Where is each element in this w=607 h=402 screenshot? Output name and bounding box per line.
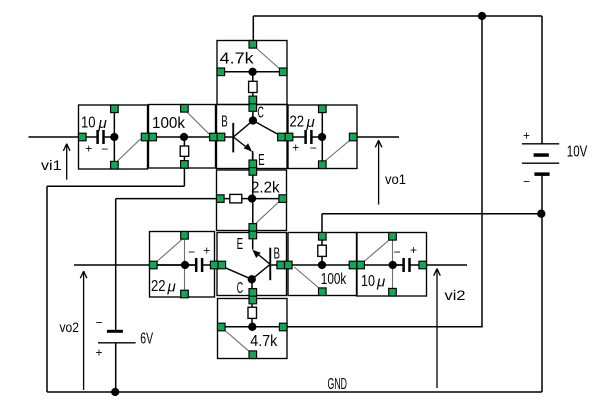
wire R2 bottom jog to left rail: [47, 164, 184, 392]
capacitor C4 plates and node: [389, 258, 411, 272]
arrow vi2: [434, 269, 441, 388]
handle C1 N: [111, 105, 119, 113]
wire GND rail: [47, 391, 542, 393]
svg-text:10: 10: [361, 273, 375, 290]
label C2 minus: [310, 141, 317, 155]
svg-text:+: +: [95, 345, 102, 359]
label Q1 E: [258, 152, 265, 169]
leader R2: [186, 111, 211, 136]
handle Q2 E: [277, 261, 285, 269]
battery BT2 6V: [98, 330, 136, 343]
node top rail junction: [478, 12, 486, 20]
leader R1: [255, 47, 282, 71]
svg-text:2.2k: 2.2k: [251, 179, 280, 196]
handle C2 S: [319, 161, 327, 169]
handle R6 W: [218, 323, 226, 331]
resistor R6 box (4.7k bottom): [218, 299, 288, 359]
svg-text:10: 10: [81, 115, 96, 132]
capacitor C2 plates and node: [288, 108, 326, 162]
svg-text:+: +: [203, 243, 210, 257]
label C2 plus: [292, 141, 299, 155]
capacitor C4 box (10u input bottom): [357, 233, 427, 297]
leader C3: [156, 239, 185, 290]
handle R6 S: [249, 351, 257, 359]
handle Q1 W: [217, 133, 225, 141]
handle C3 S: [181, 290, 189, 298]
wire top mid row R2-Q1: [148, 136, 234, 138]
svg-text:4.7k: 4.7k: [220, 51, 255, 68]
label R5 value: [321, 271, 347, 288]
label C1 minus: [101, 142, 108, 156]
svg-text:6V: 6V: [140, 331, 153, 348]
wire C3 stub to handle: [203, 264, 217, 266]
label BT2 plus: [95, 345, 102, 359]
svg-text:μ: μ: [98, 115, 107, 132]
node GND junction: [111, 388, 119, 396]
label C2 value: [290, 114, 315, 132]
resistor R1 box (4.7k top): [217, 41, 287, 105]
label C3 value: [151, 278, 176, 296]
wire E1-E2 vertical link: [252, 153, 254, 224]
label vi2: [445, 287, 466, 303]
label R2 value: [152, 115, 186, 132]
label C3 minus: [188, 245, 195, 259]
label BT2 minus: [95, 315, 102, 329]
svg-text:−: −: [188, 245, 195, 259]
svg-text:μ: μ: [167, 279, 176, 296]
svg-text:C: C: [237, 280, 244, 297]
capacitor C1 plates and node: [79, 108, 118, 162]
battery BT1 10V: [522, 144, 559, 176]
leader R3: [255, 201, 280, 225]
handle R6 E: [279, 323, 287, 331]
leader R5: [294, 267, 320, 289]
wire Q2 collector to R6: [251, 279, 253, 327]
svg-text:E: E: [237, 236, 244, 253]
svg-text:C: C: [257, 105, 264, 122]
svg-text:GND: GND: [328, 376, 348, 393]
resistor R3 body and node: [217, 194, 287, 203]
wire vo2 stub row: [74, 264, 195, 266]
handle C3 N: [181, 232, 189, 240]
wire R3 2.2k left run: [116, 199, 217, 330]
wire node vertical x482: [481, 16, 483, 327]
svg-text:vo1: vo1: [385, 171, 406, 187]
transistor Q1 symbol: [232, 108, 257, 165]
handle R5 W: [285, 261, 293, 269]
svg-text:+: +: [292, 141, 299, 155]
label Q1 B: [221, 113, 228, 130]
svg-text:B: B: [221, 113, 228, 130]
handle C2 N: [319, 105, 327, 113]
label BT1 minus: [523, 175, 530, 189]
handle R2 E: [210, 133, 218, 141]
svg-text:22: 22: [290, 114, 305, 131]
svg-text:−: −: [95, 315, 102, 329]
arrow vi1: [63, 144, 70, 180]
resistor R6 body and node: [218, 307, 288, 331]
arrow vo2: [80, 271, 87, 390]
wire 4.7k R1 top to rail: [252, 16, 254, 41]
handle R3 N: [249, 168, 257, 176]
handle Q1 S: [249, 160, 257, 168]
svg-text:vi2: vi2: [445, 287, 466, 303]
wire battery BT1 bottom: [541, 176, 543, 393]
resistor R1 body and node: [217, 68, 287, 105]
wire C4 row left: [357, 264, 403, 266]
capacitor C3 plates and node: [156, 258, 203, 272]
handle C4 W: [357, 261, 365, 269]
wire Q2 base row through R5: [270, 264, 357, 266]
label R3 value: [251, 179, 280, 196]
leader C2: [325, 140, 351, 162]
leader R6: [224, 330, 251, 353]
label Q1 C: [257, 105, 264, 122]
label C4 plus: [410, 243, 417, 257]
handle R3 S: [249, 224, 257, 232]
resistor R2 box (100k top): [149, 105, 216, 169]
arrow vo1: [375, 140, 382, 204]
handle R3 W: [217, 195, 225, 203]
handle R5 E: [349, 261, 357, 269]
label BT1 plus: [523, 128, 530, 142]
svg-text:+: +: [410, 243, 417, 257]
transistor Q2 box: [217, 233, 287, 296]
label Q2 C: [237, 280, 244, 297]
label R6 value: [250, 333, 278, 350]
svg-text:10V: 10V: [567, 143, 588, 160]
node battery mid junction: [537, 210, 545, 218]
handle Q2 W: [218, 261, 226, 269]
label R1 value: [220, 51, 255, 68]
leader C4: [363, 239, 393, 289]
transistor Q2 symbol: [248, 237, 272, 283]
handle C1 S: [111, 161, 119, 169]
handle R5 N: [319, 233, 327, 241]
svg-text:vo2: vo2: [60, 319, 80, 335]
svg-text:100k: 100k: [321, 271, 347, 288]
resistor R3 box (2.2k): [217, 170, 287, 231]
svg-text:22: 22: [151, 278, 166, 295]
handle C2 W: [285, 133, 293, 141]
transistor Q1 box: [217, 105, 288, 169]
handle C3 W: [150, 261, 158, 269]
wire top supply rail: [253, 15, 542, 17]
handle C4 N: [389, 233, 397, 241]
wire battery mid to R5 top: [322, 214, 542, 233]
handle R5 S: [319, 288, 327, 296]
handle Q2 S: [249, 289, 257, 297]
capacitor C1 box (10u input top): [79, 105, 148, 169]
handle C2 E: [349, 133, 357, 141]
capacitor C2 box (22u output top): [288, 105, 357, 169]
handle R1 S: [249, 96, 257, 104]
label BT1 value: [567, 143, 588, 160]
svg-text:B: B: [274, 245, 281, 262]
label vi1: [41, 157, 62, 173]
wire output vo1: [353, 136, 399, 138]
svg-text:+: +: [523, 128, 530, 142]
svg-text:+: +: [85, 141, 92, 155]
svg-text:100k: 100k: [152, 115, 186, 132]
label C4 minus: [393, 245, 400, 259]
wire output vi2 stub: [410, 264, 467, 266]
label vo1: [385, 171, 406, 187]
label C1 value: [81, 115, 107, 133]
wire R5 top vertical: [321, 233, 323, 265]
label C1 plus: [85, 141, 92, 155]
capacitor C3 box (22u output bottom): [150, 232, 215, 298]
svg-text:E: E: [258, 152, 265, 169]
wire R6 output to x482: [287, 326, 483, 328]
wire rail to battery BT1: [541, 16, 543, 144]
label GND: [328, 376, 348, 393]
label vo2: [60, 319, 80, 335]
handle C1 E: [141, 133, 149, 141]
wire Q1 collector diag to C2: [253, 121, 281, 137]
handle Q2 N: [249, 231, 257, 239]
handle R3 E: [279, 195, 287, 203]
handle R1 N: [249, 41, 257, 49]
svg-text:4.7k: 4.7k: [250, 333, 278, 350]
handle C4 S: [389, 288, 397, 296]
resistor R5 box (100k bottom): [288, 233, 357, 296]
wire input vi1 stub: [29, 136, 80, 138]
handle C1 W: [79, 133, 87, 141]
handle R1 E: [279, 68, 287, 76]
svg-text:−: −: [310, 141, 317, 155]
handle C3 E: [210, 261, 218, 269]
svg-text:−: −: [523, 175, 530, 189]
label C3 plus: [203, 243, 210, 257]
svg-text:μ: μ: [306, 114, 315, 131]
label Q2 B: [274, 245, 281, 262]
handle R6 N: [249, 296, 257, 304]
handle R2 W: [149, 133, 157, 141]
svg-text:−: −: [101, 142, 108, 156]
resistor R5 body and node: [318, 245, 327, 269]
resistor R2 body and node: [180, 133, 189, 164]
label C4 value: [361, 273, 385, 291]
wire Q2 collector diag to C3: [219, 265, 252, 280]
svg-text:−: −: [393, 245, 400, 259]
handle R2 N: [181, 105, 189, 113]
handle R2 S: [181, 161, 189, 169]
svg-text:μ: μ: [376, 274, 385, 291]
svg-text:vi1: vi1: [41, 157, 62, 173]
handle Q1 N: [249, 104, 257, 112]
wire battery BT2 to GND: [115, 343, 117, 392]
handle R1 W: [217, 68, 225, 76]
handle Q1 E: [278, 133, 286, 141]
label BT2 value: [140, 331, 153, 348]
handle C4 E: [419, 261, 427, 269]
label Q2 E: [237, 236, 244, 253]
leader C1: [117, 139, 141, 162]
